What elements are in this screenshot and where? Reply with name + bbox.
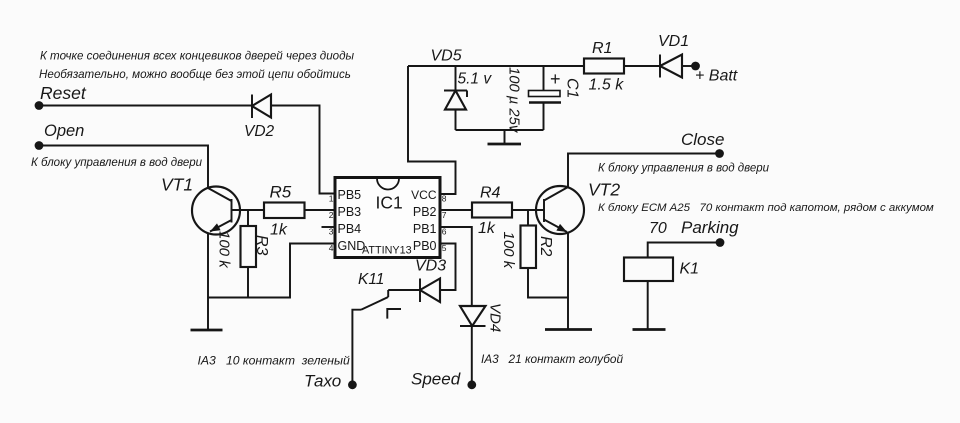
node Open label <box>44 122 84 140</box>
value 1.5k <box>589 77 625 94</box>
pin label PB1 <box>413 222 437 236</box>
capacitor C1 <box>529 66 562 130</box>
svg-text:100 k: 100 k <box>500 232 517 270</box>
wire Reset to VD2 <box>39 105 252 107</box>
note line 1 <box>40 50 355 63</box>
wire R4 to VT2 base <box>512 209 544 211</box>
pin label PB3 <box>338 205 362 219</box>
label ATTINY13 <box>362 245 412 257</box>
svg-text:VD1: VD1 <box>658 33 689 50</box>
svg-text:Тахо: Тахо <box>304 372 341 391</box>
pin label PB4 <box>338 222 362 236</box>
value 1k R4 <box>478 220 496 237</box>
svg-text:IA3 21 контакт голубой: IA3 21 контакт голубой <box>481 352 623 366</box>
wire VD4 to Speed <box>471 326 473 385</box>
svg-text:5.1 v: 5.1 v <box>458 71 493 88</box>
label VD3 <box>415 258 446 275</box>
label R1 <box>592 40 612 57</box>
value 100k R2 <box>500 232 517 270</box>
svg-text:VCC: VCC <box>411 188 437 202</box>
svg-text:+ Batt: + Batt <box>695 68 738 85</box>
label R5 <box>270 183 292 202</box>
svg-text:К точке соединения всех концев: К точке соединения всех концевиков двере… <box>40 50 355 63</box>
resistor R3 <box>241 226 257 267</box>
note door control left <box>31 157 203 169</box>
svg-text:Open: Open <box>44 122 84 140</box>
node Taho label <box>304 372 341 391</box>
pin label GND <box>338 239 366 253</box>
svg-text:100 µ 25v: 100 µ 25v <box>506 67 522 134</box>
transistor VT2 <box>536 186 584 234</box>
wire VT1 base to R5 <box>232 209 265 211</box>
label R3 <box>253 235 270 256</box>
svg-text:Close: Close <box>681 130 724 149</box>
svg-text:4: 4 <box>329 243 334 253</box>
label VD2 <box>244 123 275 140</box>
pin 3 stub <box>322 226 336 228</box>
pin number 2 <box>329 210 334 220</box>
label K1 <box>680 261 700 278</box>
svg-text:VD5: VD5 <box>431 48 462 65</box>
pin number 6 <box>442 227 447 237</box>
node Speed terminal dot <box>467 380 476 389</box>
svg-text:K1: K1 <box>680 261 700 278</box>
svg-text:PB3: PB3 <box>338 205 362 219</box>
wire pin 5 to VD3 <box>440 244 456 291</box>
value 100k R3 <box>216 231 233 269</box>
svg-text:К блоку управления в вод двери: К блоку управления в вод двери <box>598 163 770 175</box>
wire VD2 to IC pin 1 <box>271 106 335 194</box>
note line 2 <box>39 68 351 81</box>
label VD1 <box>658 33 689 50</box>
wire VT1 emitter down <box>207 233 209 330</box>
svg-text:70: 70 <box>649 220 667 237</box>
value 5.1v <box>458 71 493 88</box>
wire top rail <box>408 65 584 67</box>
label C1 <box>564 78 581 98</box>
diode VD2 <box>252 95 271 119</box>
wire pin 6 to VD4 <box>440 227 472 306</box>
ground C1 <box>488 130 522 144</box>
node Batt label <box>695 68 738 85</box>
node Batt terminal dot <box>691 62 700 71</box>
pin label PB5 <box>338 188 362 202</box>
svg-text:100 k: 100 k <box>216 231 233 269</box>
svg-text:R1: R1 <box>592 40 612 57</box>
pin label VCC <box>411 188 437 202</box>
pin number 5 <box>442 243 447 253</box>
wire Parking to K1 <box>648 243 716 258</box>
wire R2 top <box>527 210 529 226</box>
ground VT2 <box>545 328 592 331</box>
node Taho terminal dot <box>348 380 357 389</box>
svg-text:ATTINY13: ATTINY13 <box>362 245 412 257</box>
value 100u 25v <box>506 67 522 134</box>
label VD4 <box>487 303 504 332</box>
note IA3 10 <box>198 353 350 367</box>
svg-text:+: + <box>550 69 561 89</box>
pin number 4 <box>329 243 334 253</box>
svg-text:Speed: Speed <box>411 369 461 388</box>
node Close label <box>681 130 724 149</box>
node Close terminal dot <box>715 149 724 158</box>
ground VT1 <box>191 329 223 332</box>
svg-text:Reset: Reset <box>40 83 87 103</box>
svg-text:1.5 k: 1.5 k <box>589 77 625 94</box>
node Parking terminal dot <box>716 238 725 247</box>
diode VD3 <box>420 279 440 303</box>
label VD5 <box>431 48 462 65</box>
wire R5 to IC pin 2 <box>305 209 336 211</box>
svg-text:1: 1 <box>329 194 334 204</box>
pin number 7 <box>442 210 447 220</box>
node Speed label <box>411 369 461 388</box>
wire R2 bottom to emitter <box>528 268 568 298</box>
wire Open to VT1 collector <box>39 146 208 188</box>
wire VT2 collector to Close <box>568 154 716 188</box>
svg-text:К блоку управления в вод двери: К блоку управления в вод двери <box>31 157 203 169</box>
svg-text:7: 7 <box>442 210 447 220</box>
relay coil K1 <box>624 258 673 282</box>
label K11 <box>358 271 384 288</box>
ground K1 <box>633 328 666 331</box>
svg-text:5: 5 <box>442 243 447 253</box>
label VT2 <box>588 180 620 200</box>
node Parking label <box>649 218 739 237</box>
resistor R5 <box>264 203 305 219</box>
transistor VT1 <box>192 187 240 235</box>
wire zener to cap bottom rail <box>456 129 544 131</box>
svg-text:PB0: PB0 <box>413 239 437 253</box>
svg-text:8: 8 <box>442 194 447 204</box>
svg-text:IC1: IC1 <box>376 192 403 212</box>
svg-text:R3: R3 <box>253 235 270 256</box>
pin number 8 <box>442 194 447 204</box>
svg-text:IA3 10 контакт зеленый: IA3 10 контакт зеленый <box>198 353 350 367</box>
wire R1 to VD1 <box>624 65 660 67</box>
wire VD3 to K11 <box>388 289 420 291</box>
svg-text:PB4: PB4 <box>338 222 362 236</box>
wire R3 bottom rail to emitter <box>208 267 248 298</box>
svg-text:GND: GND <box>338 239 366 253</box>
diode VD1 <box>660 55 695 78</box>
resistor R4 <box>472 203 512 218</box>
wire VT2 emitter down <box>567 233 569 329</box>
pin number 1 <box>329 194 334 204</box>
resistor R1 <box>584 59 624 74</box>
svg-text:VD3: VD3 <box>415 258 446 275</box>
pin label PB0 <box>413 239 437 253</box>
svg-text:Необязательно, можно вообще бе: Необязательно, можно вообще без этой цеп… <box>39 68 351 81</box>
svg-text:VD2: VD2 <box>244 123 275 140</box>
svg-text:2: 2 <box>329 210 334 220</box>
svg-text:3: 3 <box>329 227 334 237</box>
svg-text:К блоку ЕСМ А25 70 контакт п: К блоку ЕСМ А25 70 контакт под капотом, … <box>598 202 934 214</box>
svg-text:PB5: PB5 <box>338 188 362 202</box>
switch K11 <box>352 290 401 384</box>
svg-text:C1: C1 <box>564 78 581 98</box>
node Reset terminal dot <box>35 101 44 110</box>
svg-text:PB2: PB2 <box>413 205 437 219</box>
svg-text:R5: R5 <box>270 183 292 202</box>
label IC1 <box>376 192 403 212</box>
label R2 <box>537 236 554 257</box>
note IA3 21 <box>481 352 623 366</box>
svg-text:1k: 1k <box>478 220 496 237</box>
svg-text:R4: R4 <box>480 185 501 202</box>
zener diode VD5 <box>444 66 467 130</box>
note ECM A25 <box>598 202 934 214</box>
svg-text:1k: 1k <box>270 222 288 239</box>
wire VCC rail <box>408 66 456 194</box>
pin number 3 <box>329 227 334 237</box>
svg-text:6: 6 <box>442 227 447 237</box>
note door control right <box>598 163 770 175</box>
label VT1 <box>161 174 193 194</box>
IC U1 ATTINY13 body <box>335 178 440 258</box>
pin label PB2 <box>413 205 437 219</box>
resistor R2 <box>521 226 537 269</box>
svg-text:VD4: VD4 <box>487 303 504 332</box>
wire K1 to ground <box>647 281 649 329</box>
value 1k R5 <box>270 222 288 239</box>
label R4 <box>480 185 501 202</box>
wire pin 7 to R4 <box>440 209 472 211</box>
node Reset label <box>40 83 87 103</box>
wire GND rail to IC pin 4 <box>248 244 335 298</box>
plus sign C1 <box>550 69 561 89</box>
svg-text:VT1: VT1 <box>161 174 193 194</box>
svg-text:K11: K11 <box>358 271 384 288</box>
svg-text:R2: R2 <box>537 236 554 257</box>
diode VD4 <box>460 306 486 326</box>
svg-text:Parking: Parking <box>681 218 739 237</box>
svg-text:PB1: PB1 <box>413 222 437 236</box>
svg-text:VT2: VT2 <box>588 180 620 200</box>
wire R3 top <box>247 210 249 226</box>
node Open terminal dot <box>35 141 44 150</box>
